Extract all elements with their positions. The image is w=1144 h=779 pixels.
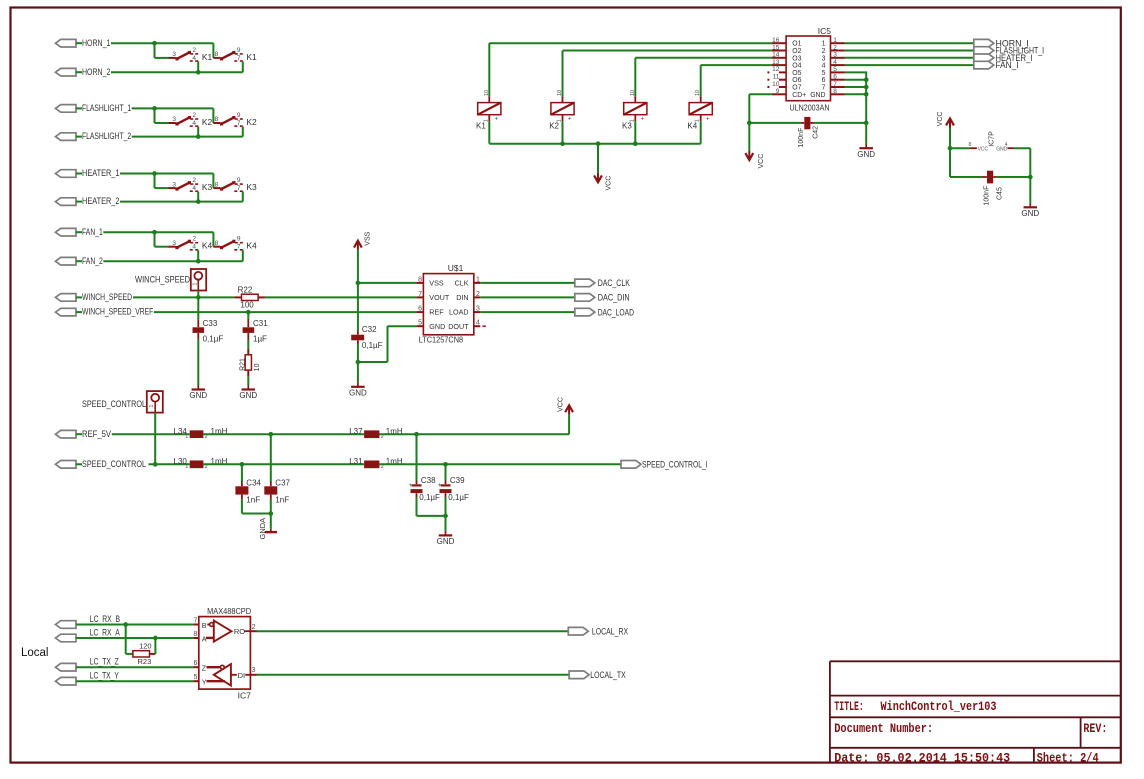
svg-text:8: 8 — [215, 240, 219, 247]
svg-text:GND: GND — [349, 388, 367, 397]
net label DAC_LOAD — [598, 307, 635, 317]
document number text — [834, 721, 933, 736]
wire LC_RX_A — [76, 637, 193, 639]
value 0.1uF — [203, 335, 224, 344]
input port FAN_1 — [56, 228, 83, 236]
wire VSS to pin 8 — [358, 282, 416, 284]
relay contact K3 switch B (pins 8-9-7) — [213, 177, 242, 192]
input port WINCH_SPEED_VREF — [56, 308, 83, 316]
junction — [864, 77, 869, 82]
value 0.1uF — [362, 341, 383, 350]
wire LC_TX_Y — [76, 680, 193, 682]
svg-text:1: 1 — [822, 41, 826, 48]
output port LOCAL_RX — [568, 627, 588, 635]
ground GND (IC5) — [857, 144, 875, 159]
svg-text:16: 16 — [772, 37, 780, 44]
power pins IC7P — [969, 131, 1014, 153]
svg-text:11: 11 — [773, 74, 780, 81]
wire VSS down — [357, 250, 359, 331]
label C42 — [813, 126, 820, 139]
capacitor C37 — [264, 481, 277, 499]
wire R23 left — [126, 625, 133, 654]
label C38 — [421, 476, 436, 485]
svg-text:LC_TX_Y: LC_TX_Y — [90, 671, 119, 681]
junction node HORN_1 — [152, 41, 157, 46]
svg-text:L37: L37 — [349, 427, 363, 436]
svg-text:GNDA: GNDA — [258, 518, 267, 540]
junction — [268, 432, 273, 437]
value 1uF — [253, 335, 267, 344]
svg-text:3: 3 — [172, 116, 176, 123]
net label FLASHLIGHT_1 — [82, 103, 131, 113]
wire C45 right — [997, 176, 1031, 178]
svg-text:6: 6 — [833, 74, 837, 81]
test point WINCH_SPEED — [191, 269, 206, 291]
wire L34 to L37 — [203, 433, 364, 435]
svg-text:4: 4 — [192, 244, 196, 251]
svg-text:CD+: CD+ — [792, 92, 806, 99]
wire to VCC — [597, 144, 599, 174]
label K2 — [549, 122, 559, 131]
svg-text:LOCAL_TX: LOCAL_TX — [590, 670, 625, 680]
svg-text:C37: C37 — [275, 479, 290, 488]
wire IC5 pin 7 to GND bus — [845, 86, 867, 88]
svg-text:FLASHLIGHT_1: FLASHLIGHT_1 — [82, 103, 131, 113]
wire C31 branch — [247, 312, 249, 319]
svg-text:FLASHLIGHT_2: FLASHLIGHT_2 — [82, 131, 131, 141]
svg-text:14: 14 — [772, 52, 780, 59]
wire drop to pin 8 — [212, 43, 214, 58]
svg-text:VSS: VSS — [364, 231, 371, 245]
wire pin7 down — [242, 127, 244, 137]
svg-text:IC7: IC7 — [238, 691, 252, 701]
wire L37 to VCC — [379, 414, 569, 434]
svg-text:LC_RX_A: LC_RX_A — [90, 627, 120, 637]
net label LC_RX_B — [90, 614, 120, 624]
svg-text:IC5: IC5 — [818, 26, 832, 36]
svg-text:WINCH_SPEED: WINCH_SPEED — [82, 292, 132, 302]
ground GND (C39) — [437, 531, 455, 546]
svg-text:100nF: 100nF — [798, 128, 805, 148]
wire C37 down — [270, 499, 272, 529]
wire drop to pin 8 — [212, 174, 214, 189]
svg-text:O3: O3 — [792, 55, 801, 62]
wire C33 down — [197, 339, 199, 385]
svg-text:REF: REF — [429, 308, 444, 317]
value 0.1uF — [448, 493, 469, 502]
svg-text:0,1µF: 0,1µF — [362, 341, 383, 350]
svg-text:+: + — [568, 116, 572, 123]
svg-text:8: 8 — [193, 631, 197, 638]
label U$1 — [448, 263, 464, 273]
svg-text:1: 1 — [185, 464, 188, 470]
svg-text:3: 3 — [172, 181, 176, 188]
wire C38 to GND — [417, 497, 446, 516]
wire DI to LOCAL_TX — [257, 674, 570, 676]
output port HEATER_I — [974, 54, 994, 62]
svg-text:GND: GND — [429, 322, 445, 331]
svg-text:LTC1257CN8: LTC1257CN8 — [419, 335, 464, 345]
svg-text:10: 10 — [557, 90, 563, 96]
value 10 — [254, 363, 261, 371]
wire C31 to R21 — [247, 340, 249, 349]
junction — [443, 462, 448, 467]
svg-text:FAN_I: FAN_I — [996, 60, 1019, 70]
input port LC_TX_Y — [56, 677, 77, 685]
label L31 — [349, 457, 384, 470]
svg-text:VCC: VCC — [606, 176, 613, 191]
svg-text:VCC: VCC — [758, 154, 765, 169]
input port WINCH_SPEED — [56, 294, 83, 302]
svg-text:O5: O5 — [792, 70, 801, 77]
inductor L34 — [190, 430, 204, 438]
wire C34 branch — [241, 464, 243, 481]
junction node FLASHLIGHT_1 — [152, 106, 157, 111]
wire IC5 pin 2 to port — [845, 50, 974, 52]
value 1mH — [386, 457, 403, 466]
svg-text:7: 7 — [822, 85, 826, 92]
svg-text:DOUT: DOUT — [448, 322, 469, 331]
svg-text:4: 4 — [192, 120, 196, 127]
label IC7 — [238, 691, 252, 701]
value 1mH — [211, 457, 228, 466]
label K4 — [687, 122, 697, 131]
net label FAN_I — [996, 60, 1019, 70]
net label FAN_1 — [82, 227, 103, 237]
svg-text:5: 5 — [822, 70, 826, 77]
value 100nF — [798, 128, 805, 148]
svg-text:4: 4 — [476, 320, 480, 327]
svg-text:K3: K3 — [622, 122, 632, 131]
wire drop to pin 3 — [155, 108, 169, 123]
junction node FLASHLIGHT_2 — [196, 134, 201, 139]
power VSS arrow — [354, 231, 371, 249]
svg-text:IC7P: IC7P — [989, 131, 996, 147]
svg-text:HEATER_1: HEATER_1 — [82, 168, 120, 178]
svg-text:VOUT: VOUT — [429, 293, 450, 302]
relay coil K4 — [689, 90, 712, 123]
wire IC5 pin 4 to port — [845, 64, 974, 66]
wire L31 to port — [379, 463, 621, 465]
svg-text:7: 7 — [237, 55, 241, 62]
svg-text:120: 120 — [139, 642, 152, 651]
svg-text:GND: GND — [437, 537, 455, 546]
output port HORN_I — [974, 39, 994, 47]
svg-text:K2: K2 — [202, 117, 213, 127]
svg-text:K2: K2 — [549, 122, 559, 131]
relay coil K3 — [624, 90, 647, 123]
net label LC_TX_Y — [90, 671, 119, 681]
wire coil K2 down — [562, 121, 564, 144]
net label HORN_I — [996, 38, 1029, 48]
output port DAC_CLK — [575, 279, 595, 287]
net label DAC_DIN — [598, 293, 630, 303]
wire pin 3 to port — [480, 311, 575, 313]
wire IC5 to coil K4 — [701, 65, 772, 96]
inductor L31 — [364, 461, 379, 469]
wire IC5 pin 9 — [749, 94, 771, 151]
net label HORN_2 — [82, 67, 110, 77]
junction — [864, 85, 869, 90]
svg-text:DI: DI — [238, 671, 246, 680]
svg-text:0,1µF: 0,1µF — [448, 493, 469, 502]
wire FLASHLIGHT_2 — [132, 136, 243, 138]
svg-text:8: 8 — [215, 51, 219, 58]
svg-text:C33: C33 — [203, 319, 218, 328]
label K3 — [622, 122, 632, 131]
svg-text:1: 1 — [833, 37, 837, 44]
svg-text:2: 2 — [192, 236, 196, 243]
wire IC5 pin 8 to GND bus — [845, 93, 867, 95]
date text — [834, 750, 1010, 765]
value 1nF — [246, 496, 260, 505]
wire C42 right — [814, 122, 866, 124]
net label LOCAL_TX — [590, 670, 625, 680]
wire IC5 pin 1 to port — [845, 42, 974, 44]
wire HEATER_2 — [120, 201, 243, 203]
svg-text:3: 3 — [172, 240, 176, 247]
junction node FAN_1 — [152, 230, 157, 235]
svg-text:12: 12 — [772, 66, 780, 73]
svg-text:R23: R23 — [138, 657, 152, 666]
capacitor C32 — [351, 331, 364, 344]
svg-text:C38: C38 — [421, 476, 436, 485]
wire drop to pin 3 — [155, 232, 169, 247]
svg-text:RO: RO — [234, 627, 245, 636]
svg-text:1: 1 — [192, 283, 198, 286]
label SPEED_CONTROL — [82, 399, 146, 409]
svg-text:VCC: VCC — [978, 147, 989, 153]
svg-text:3: 3 — [252, 667, 256, 674]
label C32 — [362, 325, 377, 334]
svg-text:7: 7 — [193, 618, 197, 625]
svg-text:REF_5V: REF_5V — [82, 429, 111, 439]
svg-text:10: 10 — [254, 363, 261, 371]
wire C33 branch — [197, 297, 199, 319]
label R23 — [138, 657, 152, 666]
svg-text:FAN_1: FAN_1 — [82, 227, 103, 237]
label K1 A — [202, 52, 213, 62]
svg-text:MAX488CPD: MAX488CPD — [207, 606, 251, 616]
value 100 — [240, 300, 254, 309]
svg-text:0,1µF: 0,1µF — [203, 335, 224, 344]
label K4 B — [246, 241, 257, 251]
svg-text:5: 5 — [833, 66, 837, 73]
svg-text:9: 9 — [237, 236, 241, 243]
svg-text:1nF: 1nF — [246, 496, 260, 505]
svg-text:10: 10 — [484, 90, 490, 96]
input port REF_5V — [56, 430, 83, 438]
ground GND (IC7P) — [1021, 203, 1039, 218]
svg-text:REV:: REV: — [1083, 721, 1107, 736]
input port HORN_1 — [56, 39, 83, 47]
net label HEATER_I — [996, 53, 1033, 63]
wire pin4 down — [197, 61, 199, 72]
junction — [240, 462, 245, 467]
op-amp array IC5 ULN2003AN — [767, 36, 845, 101]
junction node HORN_2 — [196, 70, 201, 75]
svg-text:5: 5 — [418, 320, 422, 327]
wire pin7 down — [242, 61, 244, 72]
svg-text:1µF: 1µF — [253, 335, 267, 344]
net label SPEED_CONTROL — [82, 459, 146, 469]
label K2 A — [202, 117, 213, 127]
svg-text:2: 2 — [252, 624, 256, 631]
svg-text:CLK: CLK — [455, 279, 469, 288]
svg-text:9: 9 — [237, 112, 241, 119]
input port FLASHLIGHT_2 — [56, 133, 83, 141]
DAC U$1 LTC1257CN8 — [416, 274, 486, 335]
svg-text:10: 10 — [630, 90, 636, 96]
resistor R21 — [245, 349, 251, 376]
junction — [864, 121, 869, 126]
wire IC5 to coil K3 — [635, 58, 771, 97]
svg-text:U$1: U$1 — [448, 263, 464, 273]
svg-text:6: 6 — [418, 306, 422, 313]
relay contact K4 switch B (pins 8-9-7) — [213, 236, 242, 251]
junction — [596, 141, 601, 146]
svg-text:9: 9 — [237, 47, 241, 54]
svg-text:Local: Local — [21, 647, 49, 659]
wire GND bus — [865, 72, 867, 143]
svg-text:WinchControl_ver103: WinchControl_ver103 — [881, 699, 997, 714]
svg-text:Z: Z — [202, 664, 207, 673]
svg-text:L31: L31 — [349, 457, 363, 466]
svg-text:DAC_LOAD: DAC_LOAD — [598, 307, 635, 317]
wire IC5 to coil K1 — [489, 43, 771, 96]
label C34 — [246, 479, 261, 488]
svg-text:R22: R22 — [238, 285, 253, 294]
svg-text:8: 8 — [215, 181, 219, 188]
wire coil K4 down — [700, 121, 702, 144]
svg-text:8: 8 — [969, 142, 972, 148]
value 0.1uF — [419, 493, 440, 502]
svg-text:SPEED_CONTROL: SPEED_CONTROL — [82, 399, 146, 409]
wire R23 right — [154, 638, 156, 654]
junction — [864, 92, 869, 97]
wire VCC down — [949, 128, 951, 178]
svg-text:2: 2 — [822, 48, 826, 55]
ground GND (C32) — [349, 382, 367, 397]
label K1 B — [246, 52, 257, 62]
value 100nF — [983, 186, 990, 206]
svg-text:2: 2 — [476, 291, 480, 298]
svg-text:LOAD: LOAD — [449, 308, 469, 317]
wire VREF to REF pin — [154, 311, 417, 313]
svg-text:+: + — [409, 482, 413, 489]
svg-text:VCC: VCC — [557, 397, 564, 412]
label Local — [21, 647, 49, 659]
svg-text:FAN_2: FAN_2 — [82, 256, 103, 266]
svg-text:O6: O6 — [792, 77, 801, 84]
wire C42 left — [749, 122, 800, 124]
wire L30 to L31 — [203, 463, 364, 465]
wire IC5 pin 3 to port — [845, 57, 974, 59]
title block frame — [830, 661, 1120, 762]
svg-text:1: 1 — [149, 405, 155, 408]
net label LOCAL_RX — [592, 627, 628, 637]
svg-text:13: 13 — [772, 59, 780, 66]
junction — [747, 121, 752, 126]
label K3 A — [202, 182, 213, 192]
svg-text:8: 8 — [215, 116, 219, 123]
resistor R23 — [133, 651, 156, 657]
svg-text:100nF: 100nF — [983, 186, 990, 206]
capacitor C31 — [243, 319, 255, 340]
svg-text:GND: GND — [1021, 209, 1039, 218]
svg-text:9: 9 — [776, 88, 780, 95]
value 1mH — [386, 427, 403, 436]
transceiver IC7 MAX488CPD — [193, 617, 256, 690]
net label WINCH_SPEED_VREF — [82, 307, 154, 317]
junction — [356, 281, 361, 286]
net label FAN_2 — [82, 256, 103, 266]
svg-text:K4: K4 — [687, 122, 697, 131]
relay contact K1 switch A (pins 3-2-4) — [169, 47, 199, 62]
wire C39 branch — [445, 464, 447, 480]
title text — [834, 699, 996, 714]
wire LC_RX_B — [76, 624, 193, 626]
capacitor C38 — [409, 481, 423, 498]
value 120 — [139, 642, 152, 651]
svg-text:8: 8 — [418, 276, 422, 283]
ground GND (C33) — [189, 385, 207, 400]
svg-text:4: 4 — [833, 59, 837, 66]
wire drop to pin 8 — [212, 108, 214, 123]
wire pin7 down — [242, 192, 244, 202]
junction — [153, 636, 158, 641]
label K3 B — [246, 182, 257, 192]
wire to L30 — [149, 463, 190, 465]
label R21 — [239, 358, 246, 371]
wire R21 down — [247, 376, 249, 385]
net label LC_TX_Z — [90, 657, 119, 667]
junction — [356, 360, 361, 365]
capacitor C39 — [438, 481, 452, 498]
wire testpoint down — [197, 291, 199, 298]
wire C37 branch — [270, 434, 272, 481]
test point SPEED_CONTROL — [147, 391, 163, 413]
net label HEATER_2 — [82, 196, 120, 206]
junction node HEATER_1 — [152, 171, 157, 176]
svg-text:2: 2 — [192, 177, 196, 184]
label K1 — [476, 122, 486, 131]
junction — [246, 310, 251, 315]
wire pin 2 to port — [480, 296, 575, 298]
svg-text:+: + — [706, 116, 710, 123]
svg-text:O7: O7 — [792, 85, 801, 92]
wire IC7P GND pin — [1014, 148, 1030, 177]
wire C38 branch — [416, 434, 418, 480]
svg-text:6: 6 — [822, 77, 826, 84]
net label WINCH_SPEED — [82, 292, 132, 302]
inductor L30 — [190, 460, 204, 468]
label C39 — [450, 476, 465, 485]
svg-text:O1: O1 — [792, 41, 801, 48]
output port FAN_I — [974, 61, 994, 69]
svg-text:VCC: VCC — [937, 112, 944, 127]
relay contact K3 switch A (pins 3-2-4) — [169, 177, 199, 192]
svg-text:1: 1 — [185, 434, 188, 440]
svg-text:4: 4 — [192, 55, 196, 62]
junction node HEATER_2 — [196, 199, 201, 204]
wire testpoint down — [154, 413, 156, 465]
svg-text:2: 2 — [833, 44, 837, 51]
svg-text:4: 4 — [822, 63, 826, 70]
svg-text:DAC_DIN: DAC_DIN — [598, 293, 630, 303]
wire C32 down — [357, 344, 359, 382]
wire IC5 to coil K2 — [563, 51, 772, 97]
